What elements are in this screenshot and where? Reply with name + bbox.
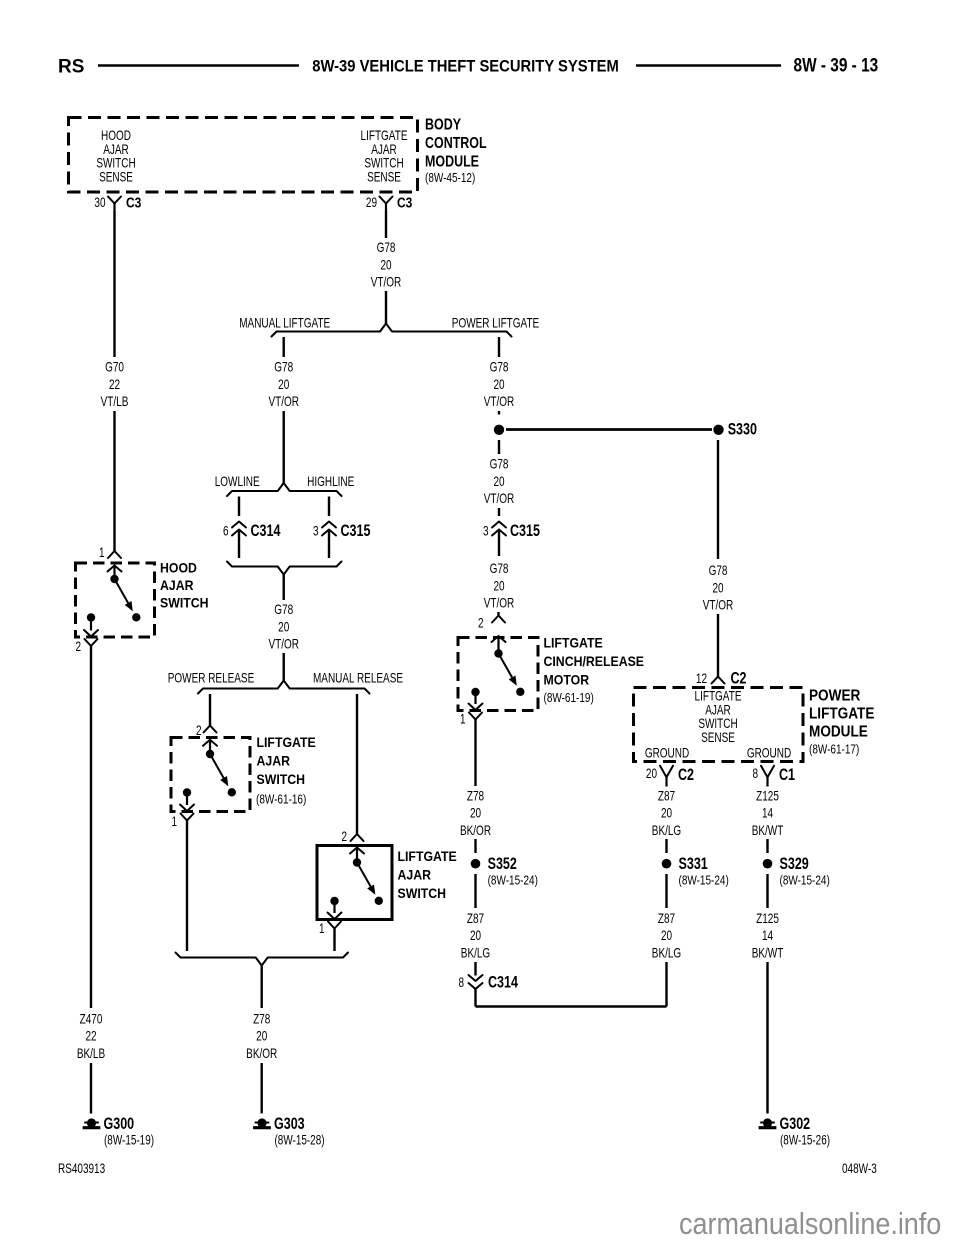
svg-text:20: 20	[493, 376, 504, 392]
svg-text:(8W-15-24): (8W-15-24)	[488, 875, 538, 888]
module reference (8W-45-12)	[425, 172, 475, 185]
liftgate cinch/release motor pin 1	[460, 711, 482, 727]
wire S331 down	[665, 874, 667, 908]
svg-text:20: 20	[470, 805, 481, 821]
wire merged manual release trunk	[283, 575, 285, 601]
svg-text:VT/OR: VT/OR	[484, 491, 515, 507]
liftgate ajar switch pin 1	[171, 813, 193, 829]
wire below C314	[238, 531, 240, 558]
svg-text:20: 20	[256, 1028, 267, 1044]
wire liftgate ajar switch 2 to merge	[333, 929, 335, 952]
svg-text:22: 22	[85, 1028, 96, 1044]
wire label G78 20 VT/OR	[268, 601, 299, 652]
svg-text:AJAR: AJAR	[398, 867, 432, 883]
svg-text:C3: C3	[126, 194, 142, 211]
svg-text:3: 3	[483, 523, 489, 539]
svg-text:2: 2	[341, 828, 347, 844]
branch label POWER LIFTGATE	[452, 315, 539, 331]
svg-text:(8W-45-12): (8W-45-12)	[425, 172, 475, 185]
module reference (8W-61-17)	[809, 744, 859, 757]
liftgate ajar switch box	[171, 738, 250, 812]
liftgate ajar switch pin 2	[196, 722, 217, 754]
wire to lowline/highline split	[283, 411, 285, 483]
svg-text:LIFTGATE: LIFTGATE	[544, 635, 603, 651]
liftgate cinch/release motor contacts	[469, 649, 525, 710]
splice S329	[763, 855, 830, 887]
split brace power/manual release	[198, 681, 370, 694]
label hood ajar switch sense	[96, 127, 135, 184]
svg-text:GROUND: GROUND	[645, 745, 689, 761]
svg-text:BK/WT: BK/WT	[752, 822, 784, 838]
hood ajar switch pin 2	[75, 638, 97, 654]
svg-text:8W-39 VEHICLE THEFT SECURITY S: 8W-39 VEHICLE THEFT SECURITY SYSTEM	[312, 58, 619, 76]
svg-text:SENSE: SENSE	[99, 169, 133, 185]
wire label G78 20 VT/OR	[703, 562, 734, 613]
svg-text:G78: G78	[709, 562, 728, 578]
in-line connector C314 pin 6	[223, 522, 281, 541]
ground G302	[759, 1115, 830, 1147]
motor reference (8W-61-19)	[544, 692, 594, 705]
svg-text:G303: G303	[274, 1115, 305, 1133]
svg-text:G302: G302	[780, 1115, 811, 1133]
svg-text:MODULE: MODULE	[809, 724, 868, 741]
svg-text:VT/OR: VT/OR	[268, 394, 299, 410]
wire pin29 down	[385, 211, 387, 238]
svg-text:BK/OR: BK/OR	[460, 822, 491, 838]
liftgate ajar switch 2 pin 2	[341, 828, 364, 862]
svg-text:20: 20	[278, 376, 289, 392]
svg-text:POWER RELEASE: POWER RELEASE	[168, 670, 255, 686]
svg-text:S331: S331	[679, 855, 708, 873]
svg-text:POWER: POWER	[809, 688, 861, 705]
svg-text:20: 20	[278, 619, 289, 635]
wire C314 to corner	[474, 989, 476, 1007]
header rule left	[98, 64, 299, 67]
ground G303	[253, 1115, 324, 1147]
connector C3 pin 29	[366, 194, 413, 211]
svg-text:20: 20	[661, 805, 672, 821]
footer drawing number 048W-3	[842, 1160, 877, 1176]
svg-text:RS: RS	[58, 57, 84, 78]
svg-text:Z78: Z78	[467, 788, 485, 804]
svg-text:(8W-15-24): (8W-15-24)	[679, 875, 729, 888]
svg-text:C1: C1	[779, 766, 795, 784]
svg-text:(8W-61-17): (8W-61-17)	[809, 744, 859, 757]
svg-text:Z87: Z87	[658, 788, 675, 804]
wire label Z87 20 BK/LG PLM	[652, 788, 681, 839]
svg-text:S329: S329	[780, 855, 809, 873]
svg-text:VT/OR: VT/OR	[484, 394, 515, 410]
header label RS	[58, 57, 84, 78]
svg-text:8: 8	[752, 765, 758, 781]
svg-text:LOWLINE: LOWLINE	[215, 473, 260, 489]
svg-text:C314: C314	[251, 522, 282, 540]
svg-text:MANUAL LIFTGATE: MANUAL LIFTGATE	[239, 315, 330, 331]
wire S329 to G302	[766, 962, 768, 1114]
connector C3 pin 30	[94, 194, 141, 211]
svg-text:8W - 39 - 13: 8W - 39 - 13	[794, 54, 879, 76]
svg-text:29: 29	[366, 194, 377, 210]
svg-text:3: 3	[313, 523, 319, 539]
svg-text:POWER LIFTGATE: POWER LIFTGATE	[452, 315, 539, 331]
wire to junction	[498, 411, 500, 415]
split brace lowline/highline	[227, 483, 342, 496]
ground G300	[83, 1115, 154, 1147]
wire label G78 20 VT/OR	[484, 359, 515, 410]
wire hood switch to G300 lower	[90, 1063, 92, 1114]
wire label G78 20 VT/OR	[484, 456, 515, 507]
splice S330	[713, 421, 757, 439]
svg-text:LIFTGATE: LIFTGATE	[809, 706, 874, 723]
svg-text:LIFTGATE: LIFTGATE	[257, 734, 316, 750]
svg-text:C3: C3	[397, 194, 413, 211]
wire junction down	[498, 440, 500, 454]
module name BODY CONTROL MODULE	[425, 116, 487, 171]
svg-text:AJAR: AJAR	[160, 577, 194, 593]
switch reference (8W-61-16)	[256, 794, 306, 807]
wire label Z125 14 BK/WT S329	[752, 910, 784, 961]
body control module box	[69, 118, 418, 193]
power liftgate module pin 12 C2	[696, 670, 747, 688]
svg-text:MOTOR: MOTOR	[544, 672, 590, 688]
svg-text:SWITCH: SWITCH	[257, 771, 306, 787]
label liftgate ajar switch sense PLM	[695, 688, 742, 745]
svg-text:G78: G78	[274, 359, 293, 375]
power liftgate module pin 8 C1	[752, 765, 795, 786]
label ground right	[747, 745, 791, 761]
svg-text:MANUAL RELEASE: MANUAL RELEASE	[313, 670, 403, 686]
wire S352 to C314 lower	[474, 962, 476, 976]
svg-text:BK/OR: BK/OR	[246, 1045, 277, 1061]
svg-text:SWITCH: SWITCH	[398, 885, 447, 901]
liftgate ajar switch 2 box	[317, 846, 392, 920]
svg-text:G78: G78	[490, 456, 509, 472]
svg-text:BK/LB: BK/LB	[77, 1045, 105, 1061]
wire to cinch motor	[497, 612, 499, 616]
svg-text:Z470: Z470	[80, 1011, 103, 1027]
merge brace to G303	[176, 953, 349, 966]
svg-text:20: 20	[493, 473, 504, 489]
svg-text:2: 2	[75, 638, 81, 654]
svg-text:G78: G78	[490, 359, 509, 375]
svg-text:CINCH/RELEASE: CINCH/RELEASE	[544, 653, 645, 669]
svg-text:048W-3: 048W-3	[842, 1160, 877, 1176]
wire hood switch to G300 upper	[90, 646, 92, 1008]
svg-text:G78: G78	[377, 239, 396, 255]
svg-text:BK/LG: BK/LG	[652, 822, 681, 838]
svg-text:VT/OR: VT/OR	[371, 274, 402, 290]
wire label G78 20 VT/OR	[268, 359, 299, 410]
wire junction to S330	[506, 428, 712, 431]
split brace manual/power liftgate	[272, 324, 512, 337]
svg-text:22: 22	[109, 376, 120, 392]
svg-text:20: 20	[470, 928, 481, 944]
svg-text:20: 20	[493, 578, 504, 594]
svg-text:(8W-61-16): (8W-61-16)	[256, 794, 306, 807]
svg-text:20: 20	[661, 928, 672, 944]
wire label Z78 20 BK/OR	[246, 1011, 277, 1062]
motor name LIFTGATE CINCH/RELEASE MOTOR	[544, 635, 645, 688]
liftgate cinch/release motor box	[458, 638, 538, 711]
svg-text:C315: C315	[341, 522, 371, 540]
svg-text:G300: G300	[104, 1115, 135, 1133]
svg-text:(8W-15-24): (8W-15-24)	[780, 875, 830, 888]
watermark carmanualsonline.info	[679, 1207, 941, 1241]
wire merge to G303 upper	[261, 966, 263, 1009]
wire label G70 22 VT/LB	[101, 359, 129, 410]
power liftgate module box	[634, 688, 804, 762]
svg-text:CONTROL: CONTROL	[425, 135, 487, 153]
header page number 8W - 39 - 13	[794, 54, 879, 76]
wire manual release drop	[356, 694, 358, 834]
svg-text:12: 12	[696, 670, 707, 686]
svg-text:HIGHLINE: HIGHLINE	[307, 473, 354, 489]
svg-text:14: 14	[762, 805, 773, 821]
svg-text:Z125: Z125	[756, 910, 779, 926]
wire motor to S352 lower	[474, 839, 476, 853]
branch label HIGHLINE	[307, 473, 354, 489]
svg-text:30: 30	[94, 194, 105, 210]
svg-text:(8W-15-26): (8W-15-26)	[780, 1132, 830, 1148]
svg-text:G78: G78	[490, 560, 509, 576]
svg-text:carmanualsonline.info: carmanualsonline.info	[679, 1207, 941, 1241]
wire into power/manual release split	[283, 653, 285, 681]
svg-text:VT/OR: VT/OR	[268, 636, 299, 652]
wire motor to S352 upper	[474, 720, 476, 787]
switch name HOOD AJAR SWITCH	[160, 560, 209, 611]
svg-text:MODULE: MODULE	[425, 153, 479, 171]
module name POWER LIFTGATE MODULE	[809, 688, 874, 741]
wire highline drop	[328, 497, 330, 517]
svg-text:6: 6	[223, 523, 229, 539]
svg-text:SENSE: SENSE	[701, 729, 735, 745]
wire PLM to S329	[766, 839, 768, 853]
svg-text:1: 1	[171, 813, 177, 829]
splice S352	[471, 855, 538, 887]
svg-text:8: 8	[458, 974, 464, 990]
svg-text:AJAR: AJAR	[257, 753, 291, 769]
wire label G78 20 VT/OR	[371, 239, 402, 290]
svg-text:(8W-15-28): (8W-15-28)	[275, 1132, 325, 1148]
svg-text:S352: S352	[488, 855, 517, 873]
svg-text:GROUND: GROUND	[747, 745, 791, 761]
hood ajar switch contacts	[84, 575, 141, 637]
label ground left	[645, 745, 689, 761]
wire manual liftgate drop	[283, 337, 285, 357]
svg-text:BODY: BODY	[425, 116, 461, 134]
merge brace lowline/highline	[227, 562, 342, 575]
svg-text:S330: S330	[728, 421, 757, 439]
wire power release drop	[209, 694, 211, 726]
switch name LIFTGATE AJAR SWITCH	[257, 734, 316, 787]
in-line connector C314 pin 8	[458, 974, 518, 992]
in-line connector C315 pin 3	[313, 522, 371, 541]
wire liftgate ajar switch to merge	[186, 821, 188, 952]
svg-text:1: 1	[319, 920, 325, 936]
wire label Z87 20 BK/LG	[461, 910, 490, 961]
hood ajar switch pin 1	[99, 544, 122, 579]
power liftgate module pin 20 C2	[646, 765, 694, 786]
svg-text:(8W-61-19): (8W-61-19)	[544, 692, 594, 705]
hood ajar switch box	[76, 563, 155, 637]
wire label G78 20 VT/OR	[484, 560, 515, 611]
svg-text:VT/OR: VT/OR	[484, 595, 515, 611]
svg-text:C315: C315	[510, 522, 540, 540]
svg-text:SWITCH: SWITCH	[160, 595, 209, 611]
svg-text:20: 20	[646, 765, 657, 781]
branch label MANUAL LIFTGATE	[239, 315, 330, 331]
wire S329 down upper	[766, 874, 768, 908]
wire label Z470 22 BK/LB	[77, 1011, 105, 1062]
svg-text:20: 20	[712, 580, 723, 596]
svg-text:1: 1	[460, 711, 466, 727]
svg-text:VT/LB: VT/LB	[101, 394, 129, 410]
branch label POWER RELEASE	[168, 670, 255, 686]
svg-text:RS403913: RS403913	[58, 1160, 105, 1176]
branch label LOWLINE	[215, 473, 260, 489]
wire pin30 to hood switch upper	[113, 211, 115, 357]
wire S352 to C314 upper	[474, 874, 476, 908]
svg-text:Z87: Z87	[658, 910, 675, 926]
wire lowline drop	[238, 497, 240, 517]
wire below C315	[328, 531, 330, 558]
wire link up to S331 branch	[665, 962, 667, 1007]
wire PLM to S331	[665, 839, 667, 853]
svg-text:Z87: Z87	[467, 910, 484, 926]
svg-text:G78: G78	[274, 601, 293, 617]
svg-text:1: 1	[99, 544, 105, 560]
wire below C315 power	[498, 531, 500, 556]
liftgate cinch/release motor pin 2	[478, 615, 506, 654]
svg-text:HOOD: HOOD	[160, 560, 197, 576]
wire S330 down lower	[717, 614, 719, 677]
branch label MANUAL RELEASE	[313, 670, 403, 686]
svg-text:2: 2	[478, 615, 484, 631]
wire label Z78 20 BK/OR	[460, 788, 491, 839]
in-line connector C315 pin 3 power	[483, 522, 540, 541]
wire label Z125 14 BK/WT PLM	[752, 788, 784, 839]
wire label Z87 20 BK/LG S331	[652, 910, 681, 961]
liftgate ajar switch contacts	[180, 750, 236, 811]
svg-text:LIFTGATE: LIFTGATE	[398, 848, 457, 864]
svg-text:(8W-15-19): (8W-15-19)	[104, 1132, 154, 1148]
svg-text:C314: C314	[488, 974, 519, 992]
wire bottom link	[476, 1005, 667, 1008]
svg-text:VT/OR: VT/OR	[703, 597, 734, 613]
splice S331	[662, 855, 729, 887]
svg-text:BK/LG: BK/LG	[461, 945, 490, 961]
header title 8W-39 VEHICLE THEFT SECURITY SYSTEM	[312, 58, 619, 76]
svg-text:C2: C2	[731, 670, 747, 688]
svg-text:14: 14	[762, 928, 773, 944]
junction dot	[494, 425, 504, 435]
svg-text:SENSE: SENSE	[367, 169, 401, 185]
svg-text:20: 20	[380, 257, 391, 273]
svg-text:Z78: Z78	[253, 1011, 271, 1027]
wire merge to G303 lower	[261, 1063, 263, 1114]
footer sheet number RS403913	[58, 1160, 105, 1176]
svg-text:G70: G70	[105, 359, 124, 375]
wire power liftgate drop	[498, 337, 500, 357]
liftgate ajar switch 2 contacts	[328, 858, 383, 919]
switch name LIFTGATE AJAR SWITCH 2	[398, 848, 457, 901]
svg-text:BK/WT: BK/WT	[752, 945, 784, 961]
wire into split	[385, 291, 387, 324]
wire S330 down upper	[717, 440, 719, 559]
wire pin30 to hood switch lower	[113, 411, 115, 551]
label liftgate ajar switch sense	[361, 127, 408, 184]
header rule right	[636, 64, 781, 67]
svg-text:Z125: Z125	[756, 788, 779, 804]
svg-text:C2: C2	[678, 766, 694, 784]
wire to C315	[498, 508, 500, 516]
svg-text:BK/LG: BK/LG	[652, 945, 681, 961]
liftgate ajar switch 2 pin 1	[319, 920, 341, 936]
